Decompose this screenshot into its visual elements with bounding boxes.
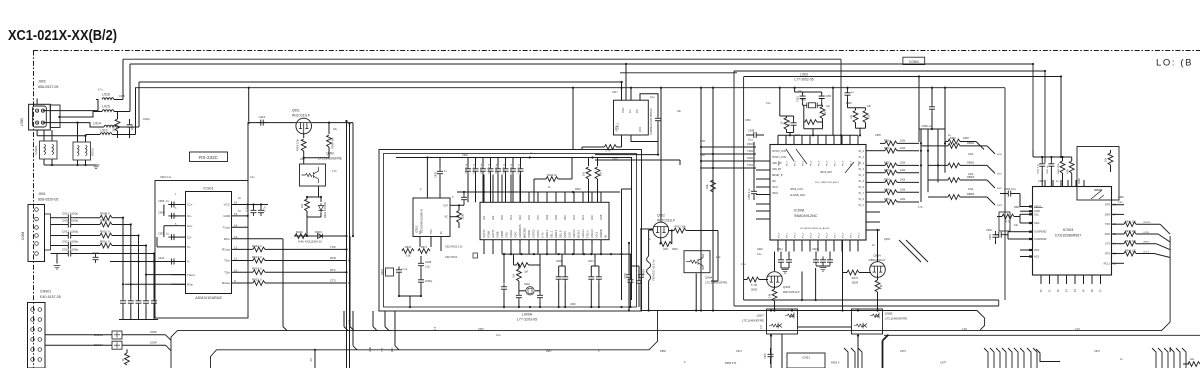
resistor R920 1M [514, 264, 517, 266]
svg-text:C962 1u: C962 1u [1047, 165, 1049, 174]
svg-text:CXD1528BR567: CXD1528BR567 [1055, 234, 1082, 238]
wire Q908 stubs [857, 309, 859, 311]
svg-text:L916: L916 [102, 93, 110, 97]
svg-text:100k: 100k [462, 214, 465, 220]
svg-text:R1out: R1out [222, 248, 230, 252]
wire crystal net [519, 290, 526, 292]
svg-text:C941: C941 [777, 248, 783, 251]
capacitor C927 [539, 291, 541, 293]
svg-text:858-0537-05: 858-0537-05 [38, 85, 58, 89]
svg-text:Vo(TP): Vo(TP) [491, 230, 495, 238]
svg-text:VO/M: VO/M [487, 230, 491, 238]
capacitor C929 [396, 267, 402, 276]
svg-text:OUT: OUT [443, 204, 449, 207]
resistor DB902 bank B [928, 164, 948, 166]
crystal X902 [526, 287, 534, 295]
svg-text:R1in: R1in [224, 237, 231, 241]
svg-text:13: 13 [234, 235, 238, 239]
svg-text:COM: COM [21, 232, 25, 240]
wire r961 bottom [787, 132, 794, 134]
label box RS-232C [190, 152, 228, 162]
svg-text:R945: R945 [1014, 206, 1020, 209]
svg-text:C950 0.1u: C950 0.1u [748, 188, 751, 200]
pin stub d5 [1176, 348, 1180, 368]
wire vert x395 to B2 [394, 311, 396, 346]
IC901 body [186, 192, 232, 294]
wire rail R3b y72.8 [620, 72, 737, 74]
svg-text:TXD: TXD [330, 245, 336, 249]
IC951 box [787, 353, 825, 368]
svg-text:IC908: IC908 [794, 209, 804, 213]
svg-text:100k: 100k [968, 173, 974, 176]
choke DA902 box [73, 142, 91, 160]
svg-text:R918: R918 [575, 188, 581, 191]
svg-text:L909A: L909A [522, 313, 533, 317]
svg-text:USB_DM: USB_DM [772, 163, 782, 165]
wire rail R2 y64 [130, 63, 1033, 65]
svg-text:P0_7: P0_7 [835, 160, 837, 166]
svg-text:R957: R957 [546, 350, 552, 353]
IC904 body [1033, 187, 1112, 276]
module2 inner top rail [396, 157, 632, 159]
svg-text:100k: 100k [706, 184, 709, 190]
resistor R921a 10k [588, 158, 590, 167]
capacitor C906 [168, 213, 177, 219]
svg-text:RS-232C: RS-232C [199, 155, 219, 160]
capacitor C945 [827, 257, 833, 266]
wire vert x347 down [346, 331, 348, 368]
svg-text:C934 0.1u: C934 0.1u [496, 163, 498, 174]
svg-text:Q903: Q903 [783, 285, 791, 289]
svg-text:CTS: CTS [330, 279, 336, 283]
wire hook x344 [343, 311, 345, 327]
svg-text:1M: 1M [781, 121, 784, 124]
svg-text:SEL.0: SEL.0 [559, 230, 563, 238]
svg-text:2829: 2829 [751, 288, 758, 292]
svg-text:DTR: DTR [1105, 204, 1110, 207]
resistor R960 [819, 104, 822, 106]
svg-text:R930: R930 [672, 248, 678, 251]
capacitor C957 [993, 232, 999, 241]
capacitor C922 left [503, 254, 505, 283]
svg-text:P1_2: P1_2 [859, 163, 865, 165]
wire Q907 stubs [770, 309, 772, 311]
capacitor C928 2.2u [420, 256, 422, 260]
svg-text:3.9k: 3.9k [880, 284, 883, 289]
capacitor C950 [753, 142, 755, 188]
svg-text:IN1: IN1 [629, 109, 632, 113]
svg-text:D903: D903 [315, 230, 322, 234]
wire mid vert x802 [801, 272, 803, 301]
resistor R903 100K [117, 112, 119, 119]
svg-text:0.1u: 0.1u [748, 138, 754, 142]
svg-text:Q904: Q904 [705, 276, 713, 280]
svg-text:LTC114EKEFRE: LTC114EKEFRE [885, 316, 907, 320]
capacitor C961 [1041, 157, 1043, 161]
svg-text:C976: C976 [478, 328, 484, 331]
svg-text:AVS: AVS [564, 215, 567, 220]
IC901 left pins [171, 204, 186, 206]
svg-text:180R: 180R [963, 137, 969, 140]
svg-text:R941 100: R941 100 [1125, 220, 1136, 223]
wire riser x794.6 [794, 88, 796, 92]
svg-text:100k: 100k [900, 140, 906, 143]
wire drop x631 to IC911 [630, 88, 632, 101]
svg-text:0.1u: 0.1u [1011, 187, 1017, 191]
module2 shield box outer [379, 150, 642, 312]
wire row2 merge diagonal [122, 344, 166, 346]
box DB910 [999, 212, 1010, 231]
svg-text:XC1-021X-XX(B/2): XC1-021X-XX(B/2) [8, 28, 117, 44]
svg-text:GCTS: GCTS [1143, 251, 1150, 253]
resistor DB903 bank B [928, 179, 948, 181]
wire caps join loops [163, 205, 165, 216]
svg-text:1000p: 1000p [425, 279, 433, 283]
capacitor C902 [129, 119, 131, 122]
wire pair bottom [856, 127, 866, 129]
IC908 bottom pins [777, 240, 779, 252]
module3 bottom outer [734, 305, 999, 307]
resistor pair R966 R967 [848, 107, 866, 109]
svg-text:100k: 100k [900, 179, 906, 182]
capacitor C914 1000p [65, 251, 74, 257]
svg-text:GND: GND [370, 347, 372, 352]
svg-text:Vo1: Vo1 [483, 215, 486, 220]
svg-text:P0_5: P0_5 [819, 160, 821, 166]
wire IC911 row2 [595, 154, 658, 156]
wire USB VBUS [43, 100, 98, 111]
svg-text:L906: L906 [570, 303, 576, 306]
resistor R905 3.3k [303, 134, 305, 138]
wires IC904 left nets [1008, 231, 1020, 233]
svg-text:RX0: RX0 [392, 347, 394, 352]
junction dots bottom rail [503, 306, 505, 308]
IC903 bottom pin joins [483, 252, 485, 254]
wire rail R6 y87.7 [135, 87, 1005, 89]
wire drop x919 [918, 77, 920, 143]
svg-text:C937: C937 [588, 260, 594, 263]
connector J901 aux [45, 214, 51, 250]
svg-text:V.SS: V.SS [568, 232, 572, 238]
svg-text:TXD.2: TXD.2 [586, 230, 590, 238]
resistor R921b 10k [597, 158, 599, 167]
wire rail R1 y59 [123, 58, 841, 60]
connector J902 inner [33, 106, 47, 127]
capacitor C910 1000p [65, 222, 74, 228]
wire crystal left [803, 105, 805, 122]
svg-text:5.7R: 5.7R [605, 150, 610, 153]
svg-text:X902: X902 [524, 283, 530, 286]
svg-text:C930: C930 [462, 154, 468, 157]
svg-text:DB902: DB902 [967, 162, 975, 165]
svg-text:RXD0: RXD0 [747, 143, 754, 146]
svg-text:C915: C915 [119, 95, 125, 98]
svg-text:R909 0: R909 0 [100, 218, 110, 222]
svg-text:T2in: T2in [224, 270, 230, 274]
wires into chokes [43, 130, 45, 141]
resistor DB904 bank B [928, 196, 948, 198]
resistor R916a [402, 249, 414, 254]
wire hook x385 [384, 311, 386, 327]
svg-text:100k: 100k [900, 162, 906, 165]
svg-text:D916A: D916A [94, 343, 103, 347]
svg-text:SCL: SCL [1034, 212, 1040, 216]
svg-text:IC901: IC901 [203, 187, 213, 191]
wire bank A verticals [920, 129, 922, 202]
svg-text:SCL/MONITOR(XCLK_AUX0): SCL/MONITOR(XCLK_AUX0) [800, 227, 830, 230]
svg-text:4.7k: 4.7k [1006, 220, 1012, 224]
bus line P1 [171, 236, 1170, 368]
connector CN901 pins [31, 308, 35, 312]
capacitor C937 [520, 158, 522, 166]
wire rail R3 drop x1045 [1044, 71, 1046, 163]
resistor R906 [328, 123, 330, 134]
svg-text:HOST0_CON: HOST0_CON [772, 151, 786, 153]
svg-text:TXD: TXD [700, 154, 705, 157]
wire hook x350 [349, 236, 351, 327]
svg-text:UPD0_CON-: UPD0_CON- [790, 189, 804, 191]
svg-text:C919: C919 [612, 158, 618, 161]
wire rail R3 y71 [734, 70, 1045, 72]
svg-text:R417: R417 [852, 276, 859, 280]
svg-text:C948: C948 [748, 129, 755, 133]
IC908 left pins [756, 160, 770, 162]
svg-text:L912: L912 [259, 115, 266, 119]
capacitor C907 [168, 234, 177, 240]
pin stub c2 [1033, 348, 1037, 368]
svg-text:R942 100: R942 100 [1125, 230, 1136, 233]
wire R906 bottom [304, 157, 329, 159]
svg-text:P1_7: P1_7 [859, 193, 865, 195]
svg-text:L915: L915 [102, 105, 110, 109]
module3 bottom riser [998, 300, 1000, 306]
svg-text:3.0k: 3.0k [406, 254, 412, 258]
IC903 top pins [483, 175, 485, 203]
svg-text:11: 11 [234, 257, 237, 261]
svg-text:C951: C951 [745, 119, 751, 122]
resistor R933 [877, 276, 879, 280]
wire Q907-Q908 link [798, 326, 852, 328]
svg-text:SDA: SDA [1034, 221, 1040, 225]
wire bottom rail mid [642, 310, 977, 312]
capacitor C933 [490, 158, 492, 166]
svg-text:100k: 100k [900, 198, 906, 201]
junction dots bottom buses [770, 335, 772, 337]
resistor R911 0 [100, 243, 112, 248]
svg-text:1M: 1M [513, 274, 516, 277]
wire riser x779.8 [779, 88, 781, 116]
resistor R919 [518, 265, 520, 269]
capacitor C936 [512, 158, 514, 166]
svg-text:Q907: Q907 [757, 314, 765, 318]
svg-text:R910 0: R910 0 [100, 229, 110, 233]
svg-text:AD1: AD1 [582, 215, 585, 220]
wire x1061 tie [1060, 77, 1062, 158]
svg-text:C930 0.1u: C930 0.1u [466, 163, 468, 174]
IC908 right pins [866, 150, 880, 152]
capacitor C926 [518, 291, 520, 293]
IC908 pin1 mark [786, 149, 854, 173]
pin stub extra [1020, 348, 1024, 368]
svg-text:R952: R952 [884, 162, 890, 165]
svg-text:C946: C946 [757, 248, 763, 251]
wire Q903 top [774, 252, 776, 272]
svg-text:Q908: Q908 [885, 312, 893, 316]
resistor R941 100 [1124, 222, 1136, 227]
wire heavy bus drop x882 [883, 335, 889, 341]
svg-text:C966: C966 [1118, 196, 1124, 199]
svg-text:P3_2: P3_2 [795, 232, 797, 238]
svg-text:HOST1_CON: HOST1_CON [772, 157, 786, 159]
wire J901 row 3 [51, 235, 67, 237]
svg-text:P3_6: P3_6 [827, 232, 829, 238]
svg-text:NC: NC [445, 216, 449, 219]
bus line L1 mid [642, 311, 985, 330]
svg-text:C916 0.1u: C916 0.1u [160, 176, 172, 179]
svg-text:P3_3: P3_3 [803, 232, 805, 238]
svg-text:C913 R912 2.2k: C913 R912 2.2k [445, 246, 463, 249]
svg-text:1000p: 1000p [143, 118, 150, 121]
IC902 top pin [426, 158, 428, 199]
IC908 top pins [777, 135, 779, 144]
svg-text:AD2: AD2 [573, 215, 576, 220]
svg-text:L77-3203-05: L77-3203-05 [517, 318, 537, 322]
svg-text:Q901: Q901 [292, 109, 300, 113]
wire vert x353 to B2 [352, 311, 354, 346]
svg-text:IN2: IN2 [636, 109, 639, 113]
resistor R952 bank A [880, 164, 885, 166]
svg-text:C933 0.1u: C933 0.1u [488, 163, 490, 174]
wire long vertical x701 [700, 88, 702, 311]
svg-text:IC902: IC902 [415, 225, 419, 233]
resistor R913 0 [253, 258, 265, 263]
svg-text:P2_0: P2_0 [859, 199, 865, 201]
svg-text:ADJ3.0: ADJ3.0 [590, 229, 594, 238]
svg-text:R914 0: R914 0 [252, 267, 262, 271]
svg-text:C953: C953 [826, 96, 832, 98]
wire USB D- to L915 [60, 112, 102, 118]
wire USB shell top [36, 99, 38, 105]
svg-text:0.1u: 0.1u [1118, 201, 1123, 204]
svg-text:SN804912NC: SN804912NC [794, 214, 818, 218]
svg-text:J902: J902 [38, 80, 46, 84]
svg-text:A5R: A5R [300, 158, 305, 161]
svg-text:C969: C969 [986, 229, 992, 232]
svg-text:100K: 100K [112, 124, 116, 131]
ground below caps a [781, 267, 789, 269]
wire diagonal pair down [899, 240, 921, 262]
capacitor C908b [463, 192, 465, 194]
wire rail R4 y76.5 [744, 76, 1061, 78]
capacitor C740 [627, 277, 633, 286]
svg-text:CONN: CONN [909, 60, 920, 64]
svg-text:RXD: RXD [330, 256, 336, 260]
svg-text:TXD1: TXD1 [747, 164, 754, 167]
connector J902 USB outer shell [29, 104, 51, 130]
wire row1 merge diagonal [122, 334, 166, 336]
wire long vertical A [346, 121, 348, 368]
wire L914 to drop [116, 126, 139, 128]
wire ground rail y254 [502, 253, 631, 255]
resistor R949 [1071, 157, 1073, 161]
wire crystal bottom [804, 128, 823, 130]
svg-text:C917: C917 [612, 91, 618, 94]
svg-text:P1_6: P1_6 [859, 187, 865, 189]
svg-text:R956: R956 [884, 198, 890, 201]
capacitor C931 [475, 158, 477, 166]
svg-text:SW0: SW0 [997, 154, 1003, 156]
svg-text:1.8V: 1.8V [962, 328, 967, 331]
svg-text:DSR: DSR [1105, 213, 1110, 216]
wire drop column 1 [122, 218, 124, 298]
wire drop x1005 module right [1004, 88, 1006, 300]
ground below caps b [816, 265, 830, 267]
svg-text:Vo(TP): Vo(TP) [482, 230, 486, 238]
svg-text:R905 3.3k: R905 3.3k [296, 138, 300, 151]
cable J903 squiggle [647, 256, 651, 281]
svg-text:RTS: RTS [330, 268, 336, 272]
wire rail R1 drop to IC908 [840, 59, 842, 144]
svg-text:C974: C974 [736, 350, 742, 353]
resistor R950 bank A [880, 142, 885, 144]
wire mid vert x842 [842, 240, 844, 311]
resistor R909 0 [100, 222, 112, 227]
svg-text:0.1u: 0.1u [403, 268, 408, 271]
svg-text:VO/TO: VO/TO [532, 230, 536, 238]
IC903 body [480, 202, 609, 239]
svg-text:LTC114EKEFRE: LTC114EKEFRE [318, 156, 342, 160]
transistor Q903 [767, 272, 783, 288]
svg-text:TX0: TX0 [382, 347, 384, 352]
svg-text:0-4k XN1110M-10: 0-4k XN1110M-10 [298, 240, 322, 244]
svg-text:R950: R950 [884, 140, 890, 143]
pin stub c1 [1027, 348, 1031, 368]
svg-text:10u: 10u [130, 125, 134, 130]
svg-text:IC951: IC951 [802, 356, 810, 360]
dashed sheet border top [33, 50, 1200, 52]
svg-text:3.9k: 3.9k [769, 293, 772, 298]
svg-text:Vo2: Vo2 [492, 215, 495, 220]
wire row R915 [248, 282, 253, 284]
pin stub b6 [1014, 348, 1018, 368]
capacitor C741 [638, 266, 640, 278]
module2 shield box inner [384, 154, 637, 308]
resistor R928 [660, 238, 662, 244]
svg-text:RXD: RXD [1105, 233, 1110, 236]
svg-text:GN1: GN1 [546, 214, 549, 220]
capacitor C933 [640, 228, 654, 230]
svg-text:VO/C: VO/C [514, 231, 518, 238]
svg-text:R952: R952 [950, 137, 956, 140]
capacitor C918 [143, 298, 149, 307]
wire bottom right corner [1183, 363, 1189, 365]
svg-text:3.3V: 3.3V [1075, 328, 1080, 331]
choke DA901 box [40, 141, 58, 159]
svg-text:12M: 12M [795, 134, 800, 137]
wire L915 to rail R2 [114, 111, 130, 113]
IC904 pin1 transistor mark [1091, 190, 1104, 199]
svg-text:C965: C965 [1038, 180, 1044, 183]
svg-text:R951: R951 [884, 147, 890, 150]
svg-text:VBUS_DET: VBUS_DET [820, 172, 833, 174]
pin stub d4 [1170, 348, 1174, 368]
svg-text:2829: 2829 [852, 281, 859, 285]
capacitor C913 1000p [65, 243, 74, 249]
wire Q901 base row [249, 122, 296, 124]
svg-text:858-0520-05: 858-0520-05 [38, 197, 58, 201]
wire drop x945 [944, 88, 946, 142]
IC901 right pins [232, 204, 249, 206]
